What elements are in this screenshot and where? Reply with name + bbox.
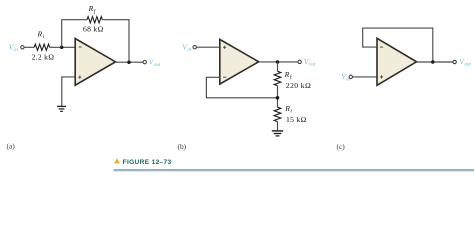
node Vin (b) label: [182, 42, 191, 53]
svg-text:out: out: [154, 62, 161, 68]
ground (a): [57, 106, 66, 111]
plus sign (b): [223, 46, 226, 48]
svg-text:R: R: [284, 70, 290, 79]
figure caption marker triangle: [114, 158, 120, 163]
terminal Vin (c): [349, 75, 352, 78]
svg-text:R: R: [37, 30, 43, 39]
terminal Vout (b): [298, 60, 301, 63]
op-amp U1 (a): [75, 39, 115, 86]
resistor Rf (b): [274, 71, 281, 85]
wire output (c): [417, 61, 453, 63]
svg-text:out: out: [464, 62, 471, 68]
svg-text:68 kΩ: 68 kΩ: [83, 25, 104, 34]
minus sign (a): [79, 46, 82, 48]
svg-text:R: R: [284, 104, 290, 113]
terminal Vin (b): [193, 46, 196, 49]
svg-text:i: i: [290, 109, 292, 115]
node Vout (a) label: [149, 57, 161, 68]
wire output node down to Rf (b): [277, 62, 279, 71]
node feedback junction dot (b): [276, 96, 280, 100]
op-amp U2 (b): [220, 39, 259, 84]
node output junction (a): [127, 61, 131, 65]
resistor Rf (a): [87, 17, 102, 23]
svg-text:i: i: [43, 34, 45, 40]
plus sign (a): [78, 76, 81, 78]
wire feedback up: [62, 20, 87, 48]
svg-text:R: R: [88, 4, 94, 13]
terminal Vout (c): [453, 60, 456, 63]
plus sign (c): [380, 76, 383, 78]
svg-text:2.2 kΩ: 2.2 kΩ: [32, 53, 55, 62]
wire Vin to plus input (b): [197, 46, 221, 48]
svg-text:220 kΩ: 220 kΩ: [286, 81, 311, 90]
wire plus input to ground: [62, 77, 76, 106]
figure caption rule: [114, 169, 474, 171]
svg-text:(a): (a): [7, 142, 16, 151]
terminal Vin (a): [21, 46, 24, 49]
node Vin (a) label: [9, 43, 18, 54]
wire Ri to ground (b): [277, 122, 279, 131]
terminal Vout (a): [143, 60, 146, 63]
wire feedback (b): [206, 77, 277, 98]
svg-text:f: f: [94, 8, 97, 15]
op-amp U3 (c): [377, 38, 417, 85]
wire feedback to output: [102, 20, 129, 63]
svg-text:f: f: [290, 74, 293, 81]
resistor Ri (b): [274, 107, 281, 121]
node Vin (c) label: [341, 72, 350, 83]
node Vout (c) label: [459, 57, 471, 68]
node Vout (b) label: [304, 57, 316, 68]
svg-text:(c): (c): [337, 142, 346, 151]
wire Ri to inverting input: [50, 46, 76, 48]
svg-text:FIGURE 12–73: FIGURE 12–73: [123, 159, 172, 166]
node output junction (c): [431, 60, 435, 64]
svg-text:in: in: [187, 47, 191, 53]
minus sign (b): [223, 76, 226, 78]
wire output (a): [116, 61, 144, 63]
node A junction dot: [60, 46, 64, 50]
wire Vin to Ri: [24, 46, 34, 48]
svg-text:15 kΩ: 15 kΩ: [286, 115, 307, 124]
resistor Ri (a): [34, 44, 49, 50]
minus sign (c): [380, 46, 383, 48]
node output junction (b): [276, 60, 280, 64]
wire feedback (c): [363, 28, 433, 62]
wire Rf to junction (b): [277, 86, 279, 108]
wire output (b): [259, 61, 298, 63]
svg-text:out: out: [309, 62, 316, 68]
wire Vin to plus input (c): [353, 76, 378, 78]
ground (b): [272, 131, 283, 136]
svg-text:in: in: [14, 47, 18, 53]
svg-text:(b): (b): [178, 142, 187, 151]
